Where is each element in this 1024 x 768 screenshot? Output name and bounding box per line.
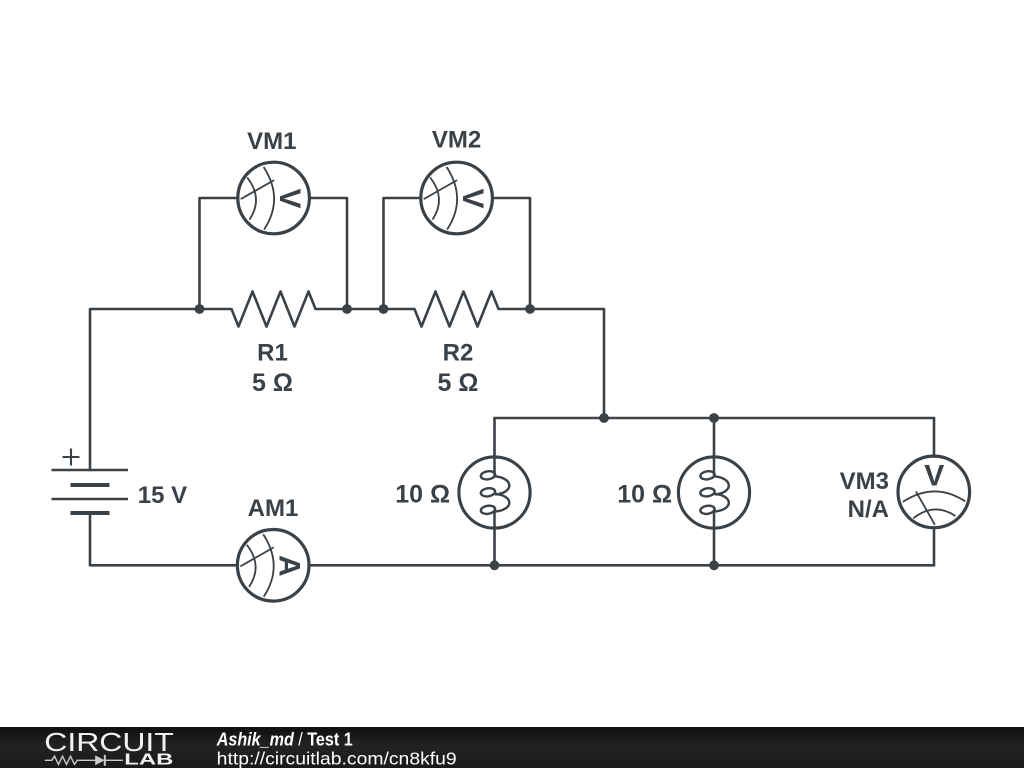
wire R1 right to R2 left xyxy=(347,308,384,311)
node R2 left xyxy=(379,304,389,314)
svg-text:VM3: VM3 xyxy=(840,468,889,495)
svg-text:10 Ω: 10 Ω xyxy=(617,481,672,509)
voltmeter VM2 xyxy=(421,162,493,234)
wire lamp2 bottom lead xyxy=(713,530,716,565)
resistor R2 xyxy=(384,292,531,327)
svg-text:http://circuitlab.com/cn8kfu9: http://circuitlab.com/cn8kfu9 xyxy=(217,748,457,768)
svg-text:R1: R1 xyxy=(257,340,288,367)
logo diode triangle xyxy=(95,755,104,765)
svg-text:R2: R2 xyxy=(443,340,474,367)
wire VM2 left lead xyxy=(384,198,421,309)
svg-text:N/A: N/A xyxy=(848,496,889,523)
svg-text:VM1: VM1 xyxy=(247,128,296,155)
wire lamp1 bottom lead xyxy=(493,530,496,565)
node R1 right xyxy=(342,304,352,314)
svg-text:15 V: 15 V xyxy=(138,482,187,509)
resistor R1 xyxy=(200,292,348,327)
svg-text:V: V xyxy=(924,460,944,493)
wire VM3 bottom lead xyxy=(933,529,936,565)
wire R2 right corner down to mid rail xyxy=(530,309,604,418)
svg-text:A: A xyxy=(273,555,306,577)
voltmeter VM3 xyxy=(898,456,970,528)
wire mid rail xyxy=(495,417,935,420)
svg-text:LAB: LAB xyxy=(124,752,173,768)
wire AM1 right to VM3 bottom xyxy=(310,564,934,567)
node R1 left xyxy=(195,304,205,314)
wire battery bottom to AM1 xyxy=(90,513,236,565)
wire VM1 right lead xyxy=(311,198,347,309)
junction dots xyxy=(195,304,719,570)
battery V1 15V xyxy=(52,449,129,514)
node bottom lamp1 junction xyxy=(490,560,500,570)
lamp L1 xyxy=(459,455,530,530)
ammeter AM1 xyxy=(237,530,309,602)
battery plus sign xyxy=(63,449,80,466)
wire lamp1 top lead xyxy=(493,418,496,455)
node R2 right xyxy=(525,304,535,314)
node mid rail lamp2 junction xyxy=(709,413,719,423)
wire VM2 right lead xyxy=(493,198,530,309)
svg-text:5 Ω: 5 Ω xyxy=(438,369,479,397)
wire VM1 left lead xyxy=(200,198,237,309)
svg-text:V: V xyxy=(273,188,306,208)
svg-text:V: V xyxy=(456,188,489,208)
svg-text:VM2: VM2 xyxy=(432,127,481,154)
svg-text:10 Ω: 10 Ω xyxy=(395,481,450,509)
voltmeter VM1 xyxy=(238,162,310,234)
wire VM3 top lead xyxy=(933,418,936,454)
svg-text:Ashik_md / Test 1: Ashik_md / Test 1 xyxy=(216,730,353,750)
svg-text:5 Ω: 5 Ω xyxy=(252,369,293,397)
lamp L2 xyxy=(678,455,749,530)
svg-text:AM1: AM1 xyxy=(248,495,299,522)
wire lamp2 top lead xyxy=(713,418,716,455)
logo resistor-diode line xyxy=(45,755,123,766)
node mid rail left junction xyxy=(599,413,609,423)
wire battery top to R1 left xyxy=(90,309,200,470)
node bottom lamp2 junction xyxy=(709,560,719,570)
